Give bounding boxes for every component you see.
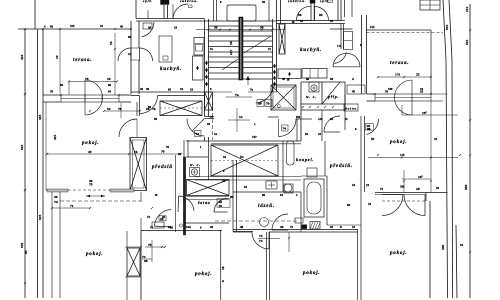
svg-text:54: 54: [240, 155, 244, 159]
svg-text:10d: 10d: [186, 225, 191, 229]
svg-text:96: 96: [108, 83, 112, 87]
svg-text:98: 98: [230, 195, 234, 199]
pokoj-L-mid south wall solid parts (thick): [46, 189, 68, 191]
pantry diagonal: [322, 82, 340, 104]
terasa-L vertical line at x60: [59, 29, 61, 94]
svg-text:25: 25: [416, 73, 420, 77]
svg-text:10: 10: [180, 87, 184, 91]
vertical lines bottom-left: [51, 192, 53, 298]
svg-text:d8: d8: [240, 225, 244, 229]
corridor north wall (kitchen south) double: [131, 91, 205, 93]
divider top dark cap: [161, 0, 170, 5]
terasa right north wall + dashed overhang: [367, 29, 432, 31]
wall under stair shaft: [205, 91, 233, 93]
elevator shaft rounded rect: [227, 5, 256, 21]
svg-text:515: 515: [445, 25, 449, 31]
svg-text:kuchyň.: kuchyň.: [300, 48, 322, 53]
stair dim ticks row: [196, 29, 285, 31]
svg-text:70: 70: [161, 150, 165, 154]
svg-text:12: 12: [128, 52, 132, 56]
svg-text:30: 30: [262, 0, 266, 4]
stair east wall double: [272, 19, 274, 92]
terasa right east edge: [430, 30, 432, 94]
svg-text:88: 88: [306, 77, 310, 81]
svg-text:1%: 1%: [337, 44, 342, 48]
stair diamonds left: [205, 61, 208, 66]
boxed label satna right: [344, 104, 358, 111]
svg-text:1%: 1%: [395, 73, 401, 77]
svg-text:74: 74: [196, 132, 200, 136]
svg-text:c26: c26: [318, 117, 323, 121]
svg-text:45: 45: [88, 150, 92, 154]
svg-text:415: 415: [38, 115, 42, 121]
svg-text:34: 34: [460, 243, 464, 247]
door arc below wall: [252, 232, 269, 249]
dim line below band right: [104, 110, 140, 112]
svg-text:36: 36: [54, 195, 58, 199]
outer wall right (double): [443, 0, 446, 60]
wc-L toilet: [190, 168, 200, 177]
stair direction diagonal: [244, 36, 271, 53]
left shaft xbox below stairs: [205, 92, 213, 110]
tick row under wc block: [332, 106, 334, 108]
washbasin right: [307, 168, 317, 177]
svg-text:10: 10: [368, 202, 372, 206]
svg-text:2P: 2P: [371, 137, 374, 141]
stair treads: [209, 25, 273, 27]
pokoj right east faint line: [430, 101, 432, 192]
dim marks above doors: [403, 170, 405, 192]
svg-text:pokoj.: pokoj.: [302, 271, 320, 276]
pokoj-L east wall double: [136, 102, 138, 116]
svg-text:w. c.: w. c.: [190, 163, 201, 167]
pokoj-L dim line: [47, 153, 181, 155]
svg-text:sušárna.: sušárna.: [179, 0, 198, 3]
svg-text:90: 90: [148, 105, 152, 109]
wardrobe xbox pokoj-L SE (tall, double border): [130, 138, 147, 191]
stairwell top landing line: [205, 20, 277, 22]
svg-text:74: 74: [259, 234, 263, 238]
predsin-L door arcs: [155, 210, 172, 227]
wall terasa south west part: [43, 94, 61, 96]
black corner square: [301, 225, 307, 229]
satna-L xbox: [187, 180, 230, 196]
svg-text:pokoj.: pokoj.: [389, 140, 407, 145]
svg-text:šatna: šatna: [197, 201, 210, 205]
svg-text:74: 74: [283, 127, 287, 131]
koupelna right walls: [282, 141, 284, 192]
svg-text:sušárna.: sušárna.: [287, 0, 306, 3]
right wc toilet: [309, 82, 319, 92]
svg-text:10⁵: 10⁵: [422, 111, 427, 115]
svg-text:74: 74: [259, 239, 263, 243]
landing south dim: [226, 96, 252, 98]
right kitchen east wall double: [340, 24, 342, 50]
pokoj-L inner west line: [45, 102, 47, 190]
svg-text:d8: d8: [258, 102, 262, 106]
svg-text:7d7: 7d7: [252, 135, 257, 139]
fixtures strip above lazen: [266, 181, 277, 189]
right top rooms walls: [280, 0, 282, 24]
chimney x strip right kitchen: [279, 24, 285, 54]
svg-text:10: 10: [109, 41, 113, 45]
svg-text:415: 415: [70, 24, 75, 28]
predsin right walls: [344, 94, 346, 130]
right apartment entry door arc: [256, 87, 273, 103]
right pokoj dim line: [368, 157, 458, 159]
outer wall left (double): [37, 29, 39, 298]
bathtub right apartment: [304, 179, 324, 217]
tub room walls: [326, 176, 328, 225]
svg-text:pokoj.: pokoj.: [85, 252, 103, 257]
corridor south wall double: [186, 140, 301, 142]
left wall top stub: [34, 0, 36, 29]
svg-text:pokoj.: pokoj.: [81, 141, 99, 146]
svg-text:15: 15: [210, 115, 214, 119]
svg-text:615: 615: [38, 215, 42, 221]
svg-text:45: 45: [282, 77, 286, 81]
svg-text:12: 12: [239, 115, 243, 119]
door jamb rect between lazen and pokoj: [295, 218, 303, 223]
svg-text:18: 18: [229, 41, 233, 45]
corridor-R south wall bits: [268, 116, 279, 118]
svg-text:b8: b8: [347, 203, 351, 207]
corridor dim cross: [236, 108, 238, 132]
svg-text:65: 65: [24, 250, 28, 254]
stair travel dashed line: [212, 95, 214, 140]
dims top-left of room: [145, 246, 165, 248]
dashed line of doors: [382, 200, 425, 202]
svg-text:305: 305: [464, 185, 468, 191]
right outer dimension line: [469, 4, 471, 298]
svg-text:1/5: 1/5: [400, 153, 405, 157]
terasa right dim line: [378, 76, 431, 78]
kitchen west wall double with terasa door gap: [130, 21, 132, 48]
boxed num at entry: [195, 131, 202, 137]
parapet line right: [456, 225, 457, 298]
svg-text:1n: 1n: [214, 132, 218, 136]
kitchen north wall double: [136, 18, 205, 20]
corridor wardrobe xbox upper: [160, 101, 202, 116]
right top room door arcs: [297, 6, 311, 20]
svg-text:7n: 7n: [235, 93, 239, 97]
svg-text:10: 10: [219, 204, 223, 208]
right kitchen counter row B: [302, 69, 327, 79]
svg-text:18: 18: [221, 266, 225, 270]
svg-text:lázeň.: lázeň.: [258, 204, 275, 209]
svg-text:spíž.: spíž.: [142, 0, 153, 3]
corner verticals: [425, 193, 427, 202]
hatched square: [310, 222, 320, 230]
right hall semicircle door: [333, 53, 360, 67]
svg-text:415: 415: [20, 55, 24, 61]
svg-text:56: 56: [60, 83, 64, 87]
kitchen counter upper (sink): [194, 38, 204, 56]
right kitchen counter row A: [278, 69, 301, 79]
kitchen-chodba door arc: [140, 96, 158, 114]
terasa right door semicircle swing: [395, 80, 412, 115]
extra wall tick slashes: [42, 28, 44, 30]
right hall wall stubs to top edge: [344, 0, 346, 17]
entry vestibule wall lines: [205, 116, 215, 118]
svg-text:příp.: příp.: [327, 95, 339, 99]
svg-text:90: 90: [298, 13, 302, 17]
terasa-L window band (south): [61, 95, 119, 102]
wall terasa south east part: [119, 94, 131, 96]
lazen-L stool circle: [260, 218, 269, 227]
svg-text:26: 26: [280, 225, 284, 229]
dashed opening between rooms: [68, 189, 110, 191]
left apartment entry wall stubs: [208, 92, 210, 117]
satna-L south wall: [184, 222, 229, 224]
far right top small rect: [420, 0, 440, 10]
shaft xbox right of stairs: [271, 85, 296, 110]
right hall shelf rect: [344, 32, 353, 50]
svg-text:415: 415: [53, 135, 57, 141]
svg-text:54: 54: [107, 107, 111, 111]
svg-text:pokoj.: pokoj.: [389, 251, 407, 256]
big wardrobe xbox in corridor: [211, 145, 278, 176]
wc-L walls: [186, 156, 209, 158]
svg-text:34: 34: [222, 179, 226, 183]
svg-text:3|6: 3|6: [400, 185, 405, 189]
svg-text:212: 212: [465, 7, 469, 13]
svg-text:30: 30: [330, 19, 334, 23]
svg-text:9: 9: [221, 280, 225, 282]
right-mid pokoj south wall: [375, 192, 426, 194]
pokoj-R west wall double: [360, 116, 362, 192]
svg-text:30: 30: [260, 26, 264, 30]
terasa-L dim line: [114, 33, 116, 95]
door predsin-pokoj arc: [119, 119, 137, 137]
outer wall top-left (terasa north): [38, 28, 132, 30]
kitchen door arc from spiz wall: [142, 22, 154, 37]
svg-text:18: 18: [174, 26, 178, 30]
svg-text:212: 212: [370, 25, 375, 29]
sub-dim bottom-left: [52, 207, 90, 209]
dashed service line: [215, 220, 297, 222]
svg-text:515: 515: [465, 40, 469, 46]
svg-text:7b: 7b: [266, 102, 270, 106]
svg-text:10: 10: [100, 24, 104, 28]
top rooms north-south divider walls: [135, 0, 137, 19]
kitchen table: [159, 36, 172, 62]
kitchen counter lower (stove): [193, 56, 204, 80]
svg-text:90: 90: [319, 13, 323, 17]
svg-text:18: 18: [107, 77, 111, 81]
svg-text:58: 58: [300, 19, 304, 23]
inner dim right upper: [402, 114, 458, 116]
svg-text:70: 70: [152, 107, 156, 111]
dashed beam line: [60, 200, 141, 202]
svg-text:90: 90: [128, 35, 132, 39]
window dim line above band: [69, 81, 117, 83]
right corner wall bits: [431, 93, 448, 95]
left apartment entry door arc: [187, 119, 205, 137]
right apartment inner door arc: [279, 119, 297, 137]
svg-text:kuchyň.: kuchyň.: [160, 67, 182, 72]
svg-text:56: 56: [330, 77, 334, 81]
svg-text:71: 71: [70, 204, 74, 208]
svg-text:675: 675: [20, 243, 24, 249]
small door arc left of hall: [334, 52, 346, 63]
svg-text:75: 75: [89, 183, 93, 187]
right hall top wall: [330, 28, 353, 30]
svg-text:f26: f26: [296, 115, 300, 119]
svg-text:75: 75: [148, 243, 152, 247]
double french doors arcs: [382, 195, 403, 216]
top strip verticals: [213, 0, 215, 21]
svg-text:terasa.: terasa.: [390, 61, 409, 66]
right rooms south wall double: [277, 20, 346, 22]
svg-text:30: 30: [148, 26, 152, 30]
svg-text:šatna: šatna: [345, 107, 358, 111]
svg-text:38: 38: [146, 87, 150, 91]
svg-text:180: 180: [388, 87, 393, 91]
svg-text:předsíň: předsíň: [151, 165, 173, 170]
right wc room walls: [300, 82, 302, 141]
up arrow at stair foot: [247, 76, 249, 85]
stair center rail dark bar: [239, 17, 243, 80]
right top rooms divider double: [310, 3, 312, 21]
spiz door arc top: [173, 4, 188, 19]
svg-text:24: 24: [352, 183, 356, 187]
lazen-L walls: [233, 191, 301, 193]
svg-text:40: 40: [210, 225, 214, 229]
svg-text:10⁵: 10⁵: [418, 175, 423, 179]
terasa door semicircle swing: [85, 80, 103, 115]
pokoj-R door arc from predsin: [367, 119, 379, 135]
svg-text:98: 98: [144, 259, 148, 263]
left outer dimension line: [24, 29, 26, 298]
small cupboard at kitchen nw: [143, 23, 152, 29]
svg-text:10: 10: [55, 55, 59, 59]
svg-text:předsíň.: předsíň.: [329, 164, 353, 169]
top-left dim extension: [18, 28, 37, 30]
entry wall double above: [183, 140, 185, 157]
stair west wall double: [204, 19, 206, 92]
svg-text:7d: 7d: [54, 200, 58, 204]
boiler rounded tall: [287, 141, 295, 165]
right satna shelf rect: [347, 85, 365, 94]
door frame rect satna-pokoj: [152, 222, 164, 228]
predsin east light wall: [175, 155, 177, 232]
stair diamonds right: [273, 64, 276, 69]
svg-text:w. c.: w. c.: [306, 95, 317, 99]
svg-text:58: 58: [154, 117, 158, 121]
terasa right west wall double: [361, 15, 363, 94]
predsin-L south wall: [141, 230, 222, 232]
pokoj-R jamb box: [366, 124, 374, 131]
svg-text:54: 54: [244, 185, 248, 189]
svg-text:pokoj.: pokoj.: [194, 272, 212, 277]
svg-text:76: 76: [166, 145, 170, 149]
svg-text:8: 8: [340, 225, 342, 229]
bottom-center-right pokoj walls: [266, 232, 268, 300]
dim arrows in doorway: [86, 195, 105, 197]
tiny box right top room: [189, 5, 193, 8]
svg-text:x17: x17: [229, 50, 233, 56]
satna-L double wall below xbox: [187, 196, 230, 198]
chimney xbox in wall: [127, 248, 140, 276]
predsin right entry arc: [324, 116, 340, 132]
thick dark wall strip: [183, 157, 185, 235]
svg-text:30: 30: [214, 26, 218, 30]
double wall under wardrobe: [195, 176, 301, 178]
svg-text:koupel.: koupel.: [296, 157, 314, 162]
wall stub west of band: [367, 93, 376, 95]
svg-text:10: 10: [366, 183, 370, 187]
kitchen-terasa swing door double arcs: [118, 48, 131, 61]
svg-text:7n: 7n: [250, 88, 253, 92]
terasa right south window band: [375, 94, 431, 101]
lazen-L door arc to pokoj: [272, 214, 288, 230]
bottom-center-left pokoj walls: [140, 230, 142, 300]
svg-text:305: 305: [441, 245, 445, 251]
shelf line left top room: [147, 10, 149, 19]
svg-text:615: 615: [20, 145, 24, 151]
svg-text:terasa.: terasa.: [73, 58, 92, 63]
